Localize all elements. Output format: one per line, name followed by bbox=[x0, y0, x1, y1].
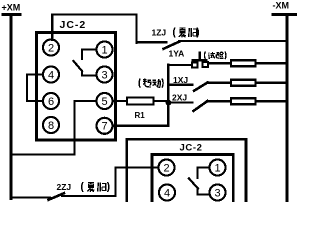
svg-text:-XM: -XM bbox=[273, 1, 290, 11]
svg-text:1XJ: 1XJ bbox=[173, 75, 188, 85]
svg-text:6: 6 bbox=[48, 96, 54, 108]
svg-text:1: 1 bbox=[101, 45, 107, 57]
svg-text:+XM: +XM bbox=[2, 3, 21, 13]
svg-text:3: 3 bbox=[214, 188, 220, 200]
svg-text:JC-2: JC-2 bbox=[60, 19, 87, 31]
svg-text:5: 5 bbox=[101, 96, 107, 108]
svg-text:JC-2: JC-2 bbox=[180, 143, 203, 154]
svg-text:2: 2 bbox=[48, 43, 54, 55]
svg-text:2: 2 bbox=[163, 163, 169, 175]
svg-text:1YA: 1YA bbox=[169, 49, 185, 59]
svg-text:4: 4 bbox=[48, 70, 54, 82]
svg-text:7: 7 bbox=[101, 121, 107, 133]
svg-text:2ZJ: 2ZJ bbox=[57, 182, 72, 192]
svg-text:4: 4 bbox=[164, 188, 170, 200]
svg-text:1: 1 bbox=[214, 163, 220, 175]
svg-text:1ZJ: 1ZJ bbox=[152, 28, 167, 38]
svg-text:8: 8 bbox=[48, 120, 54, 132]
svg-text:R1: R1 bbox=[135, 111, 146, 120]
svg-text:2XJ: 2XJ bbox=[172, 93, 187, 103]
svg-text:3: 3 bbox=[101, 70, 107, 82]
